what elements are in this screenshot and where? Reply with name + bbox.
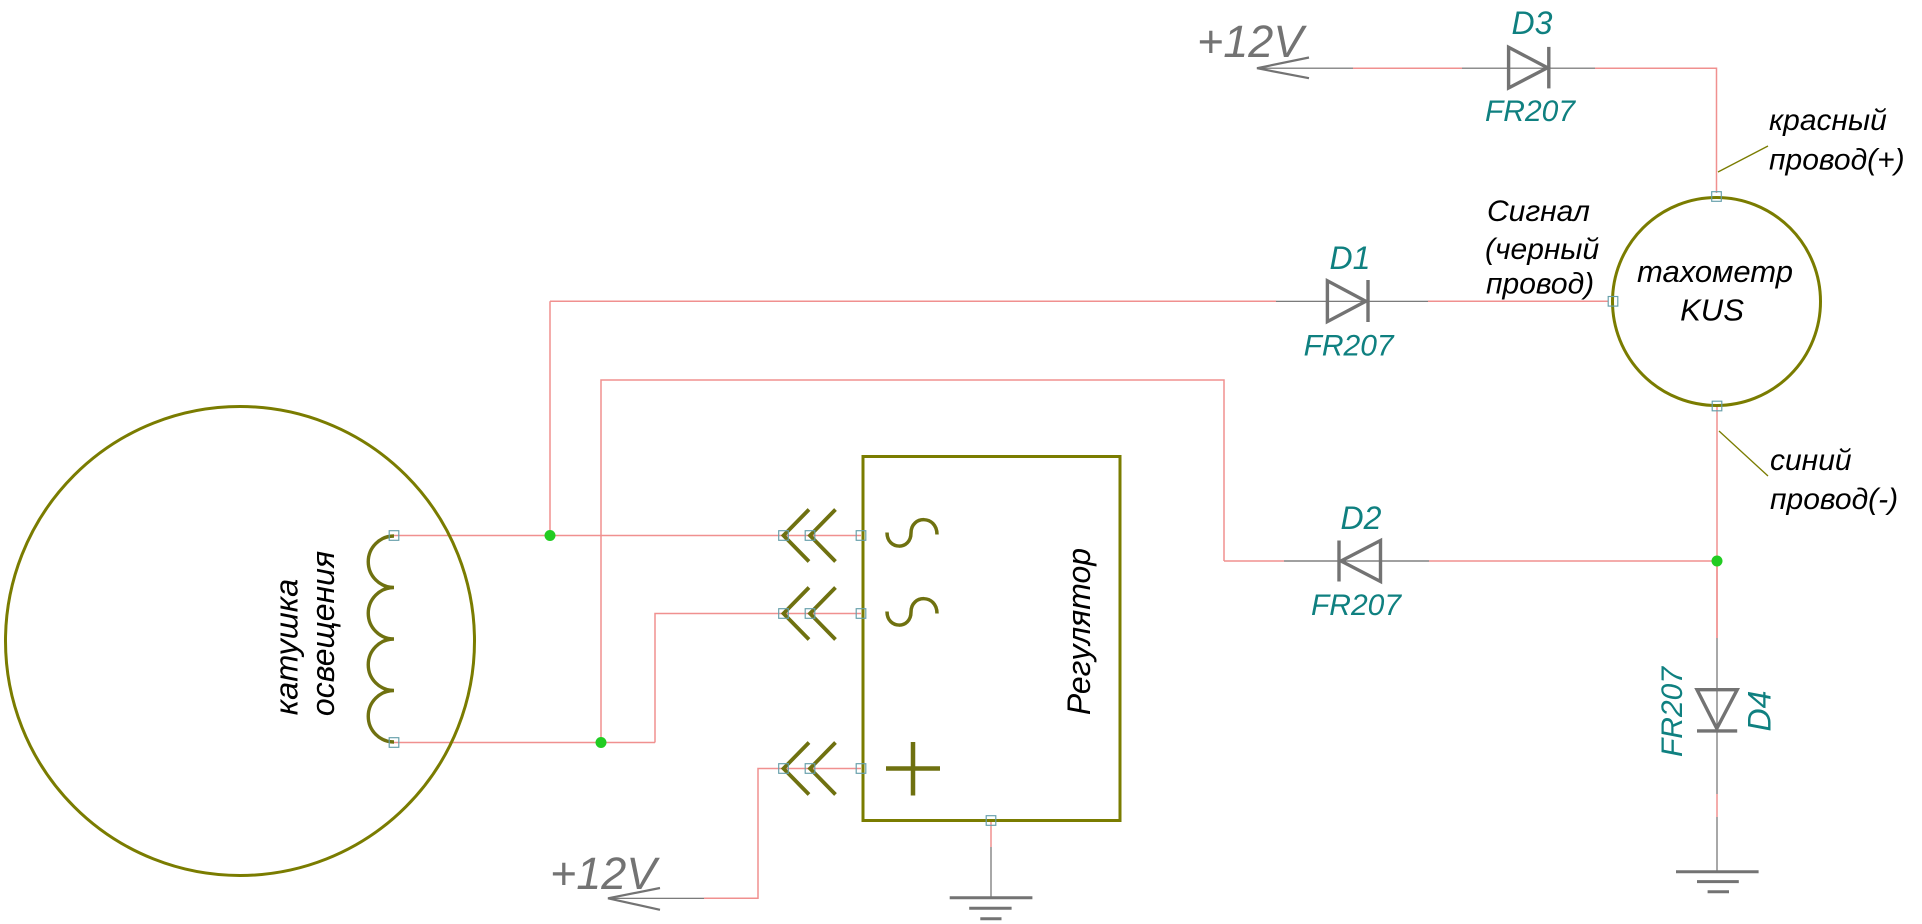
pin squares regulator input 3 (779, 764, 866, 774)
tachometer KUS circle (1613, 198, 1821, 406)
wire regulator ground pin (990, 822, 992, 847)
pin lead D4 anode (1716, 638, 1718, 731)
inductor winding of катушка освещения (368, 536, 394, 742)
regulator plus symbol (886, 742, 940, 796)
wire D4 cathode short net (1716, 794, 1718, 817)
regulator input chevrons row 1 (784, 510, 836, 562)
svg-text:FR207: FR207 (1656, 666, 1689, 757)
pin lead +12V top symbol (1257, 67, 1353, 69)
diode D4 (1697, 690, 1737, 731)
pin lead D3 anode (1462, 67, 1549, 69)
node B junction dot (596, 737, 607, 748)
svg-text:Сигнал: Сигнал (1487, 195, 1590, 228)
svg-text:Регулятор: Регулятор (1061, 548, 1097, 715)
svg-text:+12V: +12V (550, 848, 660, 899)
node C junction dot (1712, 556, 1723, 567)
wire coil bottom pin through node B to corner (394, 742, 655, 744)
ground below regulator (950, 898, 1033, 919)
regulator input chevrons row 3 (784, 743, 836, 795)
pin lead D2 anode (1381, 560, 1430, 562)
pin square regulator ground (986, 816, 996, 826)
pin lead D1 anode (1276, 300, 1368, 302)
svg-text:D2: D2 (1341, 500, 1382, 536)
pin squares coil (389, 531, 399, 748)
pin squares regulator input 2 (779, 609, 866, 619)
PIN-LEADS (gray) (608, 68, 1717, 898)
wire tachometer minus pin down through node C (1716, 406, 1718, 638)
svg-text:(черный: (черный (1485, 233, 1599, 266)
wire D1 net right segment to tachometer signal pin (1428, 300, 1608, 302)
svg-text:D4: D4 (1742, 691, 1778, 732)
regulator AC squiggle symbol 2 (887, 599, 937, 625)
pin lead ground left (990, 847, 992, 897)
wire node B up to D2 net (601, 380, 1224, 743)
svg-text:провод(-): провод(-) (1770, 483, 1898, 516)
svg-text:провод): провод) (1486, 268, 1594, 301)
pin lead D1 cathode (1368, 300, 1428, 302)
pin lead D4 cathode (1716, 731, 1718, 794)
svg-text:тахометр: тахометр (1637, 254, 1793, 289)
wire +12V top net (1353, 67, 1462, 69)
pin lead ground right (1716, 817, 1718, 872)
regulator U1 box (863, 457, 1120, 821)
power symbol +12V top arrow (1257, 58, 1309, 79)
svg-text:D3: D3 (1512, 5, 1553, 41)
callout line синий провод (1719, 431, 1768, 476)
node A junction dot (545, 530, 556, 541)
wire node A up to D1 net (549, 301, 551, 535)
ground below D4 (1676, 872, 1759, 892)
svg-text:провод(+): провод(+) (1769, 144, 1905, 177)
svg-text:KUS: KUS (1680, 293, 1744, 328)
svg-text:красный: красный (1769, 104, 1887, 137)
pin squares regulator input 1 (779, 531, 866, 541)
pin lead D2 cathode (1284, 560, 1381, 562)
WIRES-NETS (394, 68, 1717, 898)
svg-text:+12V: +12V (1197, 16, 1307, 67)
svg-text:катушка: катушка (269, 579, 305, 715)
diode D3 (1509, 47, 1549, 89)
callout line красный провод (1718, 146, 1768, 172)
regulator AC squiggle symbol 1 (887, 520, 937, 546)
coil M1 катушка освещения (flywheel circle) (6, 407, 475, 876)
wire corner up to regulator input 2 (655, 614, 861, 743)
wire node C to D4 (1716, 561, 1718, 638)
wire +12V bottom net (704, 769, 861, 899)
wire D2 net left segment (1224, 560, 1284, 562)
pin lead D3 cathode (1549, 67, 1595, 69)
wire D1 net left segment (550, 300, 1276, 302)
svg-text:FR207: FR207 (1485, 95, 1576, 128)
svg-text:D1: D1 (1330, 240, 1371, 276)
pin lead +12V bottom symbol (608, 897, 704, 899)
wire D2 net right segment to node C (1429, 560, 1717, 562)
diode D1 (1327, 280, 1368, 322)
svg-text:освещения: освещения (305, 551, 341, 716)
diode D2 (1339, 541, 1381, 582)
wire node A to regulator input 1 (550, 535, 861, 537)
pin squares tachometer (1608, 192, 1722, 411)
wire coil top pin to node A (394, 535, 550, 537)
svg-text:синий: синий (1770, 444, 1852, 477)
power symbol +12V bottom arrow (608, 888, 660, 910)
svg-text:FR207: FR207 (1304, 329, 1395, 362)
regulator input chevrons row 2 (784, 588, 836, 640)
svg-text:FR207: FR207 (1311, 589, 1402, 622)
wire D3 to tachometer plus pin (1595, 68, 1717, 193)
